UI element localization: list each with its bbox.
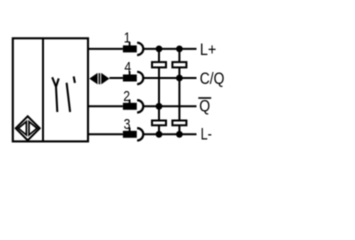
svg-text:L+: L+ (200, 41, 216, 59)
svg-text:2: 2 (123, 88, 130, 105)
svg-text:L-: L- (201, 125, 212, 143)
svg-text:1: 1 (124, 29, 131, 46)
svg-text:4: 4 (124, 59, 131, 76)
svg-text:Q: Q (199, 98, 210, 116)
svg-text:C/Q: C/Q (200, 70, 225, 88)
svg-text:3: 3 (124, 116, 131, 133)
